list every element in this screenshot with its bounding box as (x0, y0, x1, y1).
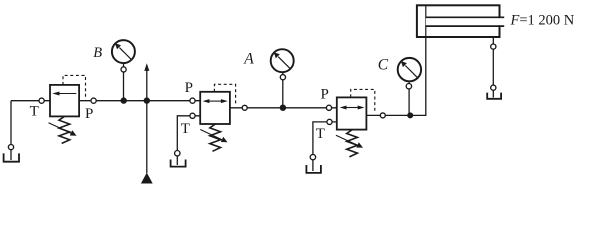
svg-text:C: C (378, 56, 389, 73)
svg-text:A: A (243, 50, 254, 67)
svg-text:P: P (185, 80, 193, 96)
svg-text:F=1 200 N: F=1 200 N (510, 13, 575, 29)
svg-text:P: P (321, 87, 329, 103)
svg-text:P: P (85, 106, 93, 122)
svg-text:B: B (93, 45, 102, 61)
svg-text:T: T (181, 121, 190, 137)
svg-text:T: T (316, 126, 325, 142)
svg-text:T: T (30, 104, 39, 120)
